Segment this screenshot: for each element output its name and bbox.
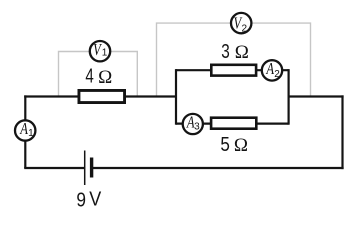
label 3 ohm bbox=[221, 41, 249, 63]
wire left junction vertical bbox=[175, 69, 177, 125]
wire mid horizontal right of junction bbox=[289, 95, 344, 97]
svg-text:3: 3 bbox=[194, 122, 200, 133]
label 4 ohm bbox=[85, 66, 112, 88]
resistor R2 3 ohm box bbox=[211, 65, 256, 76]
voltmeter V1 bbox=[90, 41, 110, 61]
wire bottom branch bbox=[176, 122, 289, 124]
voltmeter V2 gray leads bbox=[157, 23, 311, 96]
wire right vertical bbox=[341, 95, 343, 169]
battery short plate bbox=[90, 158, 93, 178]
ammeter A1 bbox=[15, 120, 35, 140]
ammeter A3 bbox=[183, 114, 203, 134]
battery long plate bbox=[84, 151, 86, 186]
wire right junction vertical bbox=[288, 69, 290, 125]
voltmeter V2 bbox=[231, 13, 251, 35]
svg-text:Ω: Ω bbox=[234, 135, 248, 156]
svg-text:4: 4 bbox=[85, 66, 93, 88]
label 9 V battery bbox=[76, 189, 101, 212]
wire top branch bbox=[176, 69, 289, 71]
svg-text:5: 5 bbox=[220, 134, 230, 156]
svg-text:3: 3 bbox=[221, 41, 230, 63]
ammeter A2 bbox=[262, 60, 282, 80]
wire top-left horizontal bbox=[24, 95, 176, 97]
svg-text:9: 9 bbox=[76, 189, 86, 211]
svg-text:Ω: Ω bbox=[98, 67, 112, 88]
svg-text:1: 1 bbox=[102, 48, 108, 59]
resistor R1 4 ohm box bbox=[79, 90, 125, 102]
label 5 ohm bbox=[220, 134, 248, 156]
wire left vertical bbox=[24, 95, 26, 168]
voltmeter V1 gray leads bbox=[59, 52, 138, 97]
svg-text:1: 1 bbox=[28, 128, 34, 139]
resistor R3 5 ohm box bbox=[211, 118, 256, 129]
svg-text:V: V bbox=[89, 189, 102, 211]
svg-text:2: 2 bbox=[242, 24, 248, 35]
wire bottom right segment bbox=[92, 167, 344, 169]
svg-text:2: 2 bbox=[274, 69, 280, 80]
wire bottom left segment bbox=[24, 167, 84, 169]
svg-text:Ω: Ω bbox=[235, 42, 249, 63]
